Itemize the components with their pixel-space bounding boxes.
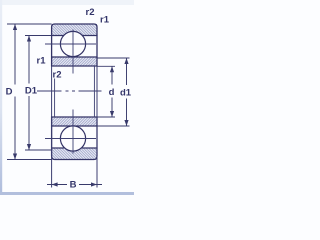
B arrows	[52, 182, 58, 186]
band underlays (scan tint)	[52, 24, 97, 160]
ball lower	[60, 126, 85, 151]
svg-text:r1: r1	[100, 15, 110, 26]
svg-text:r2: r2	[53, 70, 62, 81]
lower outer ring raceway surface	[52, 147, 97, 149]
upper inner ring shoulder	[52, 56, 97, 58]
svg-text:D: D	[6, 87, 13, 98]
d arrows	[110, 66, 114, 72]
ball lower centerlines	[45, 110, 96, 154]
D extension lines	[7, 24, 52, 160]
top light band	[0, 0, 134, 5]
svg-text:d: d	[109, 87, 115, 98]
D1 arrows	[27, 36, 31, 42]
lower inner ring shoulder	[52, 125, 97, 127]
ball upper	[60, 31, 85, 56]
d extension lines	[97, 66, 115, 117]
upper section outline	[52, 24, 97, 66]
D1 dimension line	[28, 36, 30, 151]
outer ring upper hatch	[52, 24, 97, 36]
bore chamfer edge lines	[55, 66, 95, 117]
D1 extension lines	[25, 36, 52, 151]
lower section outline	[52, 117, 97, 160]
d1 extension lines	[97, 58, 130, 126]
D dimension line	[14, 24, 16, 160]
svg-text:d1: d1	[120, 88, 132, 99]
svg-text:r1: r1	[37, 56, 47, 67]
svg-text:D1: D1	[25, 86, 38, 97]
upper outer ring raceway surface	[52, 35, 97, 37]
D arrows	[13, 24, 17, 30]
d1 arrows	[124, 58, 128, 64]
svg-text:r2: r2	[86, 7, 95, 18]
ball upper centerlines	[45, 30, 96, 74]
left page border	[0, 0, 2, 195]
d1 dimension line	[126, 58, 128, 126]
arrowheads	[13, 24, 129, 187]
bottom page border	[0, 192, 134, 195]
inner ring upper hatch	[52, 57, 97, 66]
outer ring lower hatch	[52, 148, 97, 160]
axis centerline (dash-dot)	[37, 90, 102, 92]
inner ring lower hatch	[52, 117, 97, 126]
B dimension line	[47, 184, 102, 186]
page background	[0, 0, 134, 195]
svg-text:B: B	[70, 180, 77, 191]
d dimension line	[111, 66, 113, 117]
side faces through gap + B extension lines	[52, 66, 97, 188]
